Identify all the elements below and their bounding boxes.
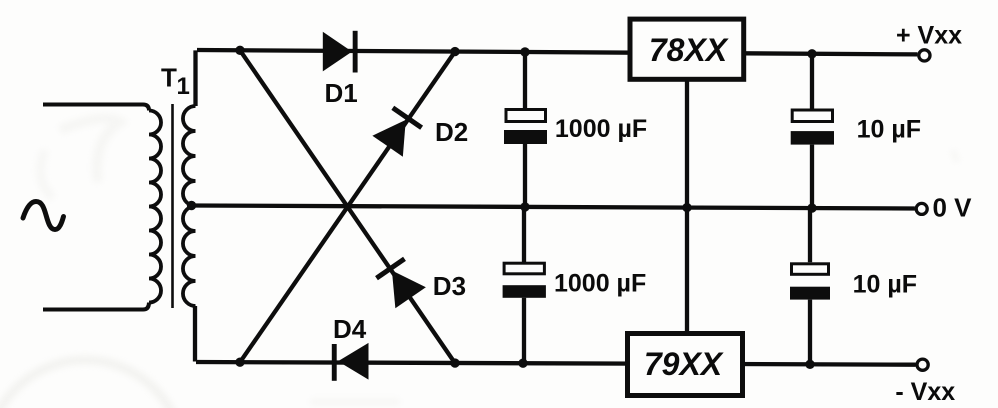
svg-text:79XX: 79XX <box>644 346 724 382</box>
svg-text:1000 µF: 1000 µF <box>555 115 647 143</box>
svg-text:T: T <box>161 63 177 93</box>
svg-text:+ Vxx: + Vxx <box>896 21 962 49</box>
svg-text:D2: D2 <box>435 117 468 147</box>
svg-text:- Vxx: - Vxx <box>895 378 955 406</box>
svg-text:78XX: 78XX <box>649 32 729 68</box>
svg-text:0 V: 0 V <box>933 193 973 223</box>
svg-text:10 µF: 10 µF <box>857 115 921 143</box>
svg-text:10 µF: 10 µF <box>853 270 917 298</box>
svg-text:D3: D3 <box>433 271 466 301</box>
svg-text:1: 1 <box>177 73 190 100</box>
svg-text:1000 µF: 1000 µF <box>554 270 646 298</box>
svg-text:D4: D4 <box>333 314 367 344</box>
svg-text:D1: D1 <box>325 78 358 108</box>
